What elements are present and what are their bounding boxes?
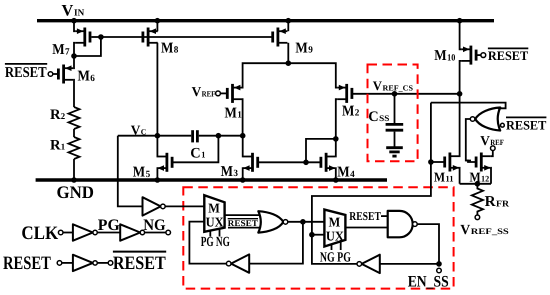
label MUX1 UX <box>206 214 224 229</box>
svg-text:FR: FR <box>496 198 510 208</box>
terminal VREF at M12 <box>491 146 496 151</box>
wire R2 to R1 <box>73 129 75 137</box>
svg-text:M: M <box>434 48 446 64</box>
ground symbol under CSS <box>386 148 403 156</box>
svg-text:6: 6 <box>90 74 95 84</box>
dashed box switching logic <box>183 187 453 288</box>
svg-text:REF_CS: REF_CS <box>383 83 414 92</box>
wire NAND out down <box>417 224 439 264</box>
wire NAND out to inverter2 <box>380 263 439 265</box>
svg-text:PG NG: PG NG <box>201 235 230 250</box>
wire M2 gate to VREF_CS <box>352 93 460 95</box>
transistor M9 <box>273 28 288 47</box>
node MUX2 select tap <box>309 232 315 238</box>
label M10 <box>434 48 455 64</box>
label MUX2 M <box>329 215 341 230</box>
wire MUX1 out to NOR1 <box>225 214 261 216</box>
terminal VREF_SS <box>475 215 480 220</box>
svg-text:M: M <box>161 41 173 57</box>
label R1 <box>50 138 65 154</box>
bubble U7 <box>226 261 231 266</box>
wire MUX2 out to NAND <box>345 227 387 229</box>
label GND <box>57 182 95 202</box>
wire NOR top input <box>431 103 506 109</box>
node M3/M4 gate <box>303 160 309 166</box>
wire VC to inverter <box>118 136 143 207</box>
junction M3 on rail <box>240 177 246 183</box>
svg-text:1: 1 <box>61 142 65 152</box>
junction M4 on rail <box>333 177 339 183</box>
wire M4 drain up <box>335 139 337 157</box>
transistor M1 <box>227 84 242 103</box>
wire M4 source to rail <box>335 168 337 180</box>
svg-text:8: 8 <box>174 46 179 56</box>
svg-text:RESET: RESET <box>506 118 547 133</box>
wire M11/M12 source join <box>460 183 491 185</box>
label VIN <box>62 3 85 20</box>
label M11 <box>434 169 454 184</box>
wire RESETbar to M6 gate bubble <box>47 73 50 75</box>
transistor M10 <box>461 46 476 65</box>
node VREF_CS at CSS <box>392 91 398 97</box>
svg-text:RESET: RESET <box>3 253 51 274</box>
inverter U12 NG <box>120 224 140 240</box>
transistor M4 <box>321 153 336 172</box>
svg-text:C: C <box>190 146 200 162</box>
wire M11 source down <box>458 168 460 184</box>
label RESETbar at M10 <box>488 48 529 63</box>
label RESETbar small at NOR1 <box>228 218 258 228</box>
resistor R2 <box>69 107 80 129</box>
bubble on M6 gate <box>48 72 53 77</box>
wire M6 source down to R2 <box>72 80 75 107</box>
svg-text:7: 7 <box>65 47 70 57</box>
label M12 <box>470 169 490 184</box>
wire M1 drain up to M9 <box>242 63 288 87</box>
terminal RESETbar <box>108 261 113 266</box>
wire VIN to M9 source <box>287 21 289 32</box>
node VIN power rail <box>37 19 494 22</box>
wire M4 diode loop <box>306 139 336 162</box>
svg-text:RESET: RESET <box>349 209 381 223</box>
bubble NOR1 output <box>283 220 288 225</box>
svg-text:IN: IN <box>74 9 84 19</box>
junction R1 on GND rail <box>71 177 77 183</box>
resistor RFR <box>472 184 483 215</box>
mux U5 MUX1 <box>204 195 224 232</box>
svg-text:M: M <box>78 69 90 85</box>
bubble NAND output <box>413 222 418 227</box>
wire M11 gate left <box>431 161 445 163</box>
svg-text:GND: GND <box>57 182 95 202</box>
capacitor CSS <box>386 94 404 147</box>
junction on VIN rail at M9 <box>286 18 292 24</box>
svg-text:C: C <box>368 109 378 125</box>
svg-text:PG: PG <box>98 217 121 234</box>
junction on VIN rail at M8 <box>155 18 161 24</box>
label VREF_SS <box>460 223 509 238</box>
svg-text:EN_SS: EN_SS <box>408 273 449 290</box>
terminal CLK <box>58 230 63 235</box>
svg-text:M: M <box>295 41 307 57</box>
svg-text:10: 10 <box>447 53 455 63</box>
svg-text:1: 1 <box>237 111 242 121</box>
svg-text:5: 5 <box>146 170 151 180</box>
wire M7 drain down <box>74 43 75 56</box>
svg-text:3: 3 <box>233 169 238 179</box>
label VREF_CS <box>373 78 413 93</box>
wire M5 gate tap down <box>174 136 219 163</box>
wire VIN to M8 source <box>156 21 158 32</box>
wire CLK to inverter <box>63 232 73 234</box>
label VREF at M12 <box>480 133 504 148</box>
wire NOR1 out down to inverter1 <box>249 222 303 264</box>
label VREF at M1 <box>192 84 216 99</box>
label M8 <box>161 41 179 57</box>
wire M1 source down <box>241 99 244 136</box>
inverter U7 feedback left box <box>231 254 249 272</box>
svg-text:M: M <box>52 42 64 58</box>
svg-text:REF: REF <box>202 89 216 98</box>
label M3 <box>221 164 239 180</box>
node M4 drain <box>333 136 339 142</box>
wire M7 gate to diode loop <box>91 36 101 38</box>
bubble U11 <box>93 230 97 234</box>
label M1 <box>225 105 243 121</box>
select stubs MUX2 <box>332 241 341 250</box>
svg-text:12: 12 <box>481 174 489 184</box>
bubble NOR reset input <box>501 123 505 127</box>
label PG <box>98 217 121 234</box>
wire RESET to inverter <box>62 262 73 264</box>
wire diode loop M7 <box>74 37 101 56</box>
inverter U4 (VC buffer) <box>143 197 161 215</box>
label RESET input <box>3 253 51 274</box>
wire M3 source to rail <box>242 168 245 180</box>
wire R1 to GND rail <box>73 159 75 180</box>
wire U4 out to MUX1 <box>165 205 204 207</box>
wire M3 gate to M4 gate <box>258 161 321 163</box>
nor gate U6 NOR1 <box>258 211 283 232</box>
svg-text:M: M <box>342 103 354 119</box>
svg-text:M: M <box>225 105 237 121</box>
label EN_SS <box>408 273 449 290</box>
svg-text:RESET: RESET <box>113 253 166 274</box>
label R2 <box>50 107 66 123</box>
label MUX1 M <box>208 200 220 215</box>
mux U8 MUX2 <box>324 210 345 247</box>
wire U7 out loop to MUX1 input <box>189 222 226 264</box>
wire U10 out up to EN bus <box>312 103 431 264</box>
svg-text:M: M <box>329 215 341 230</box>
svg-text:UX: UX <box>206 214 224 229</box>
svg-text:V: V <box>460 223 470 238</box>
terminal NG <box>166 230 171 235</box>
wire M10 gate to bubble <box>476 54 481 56</box>
label NG <box>143 217 166 234</box>
svg-text:M: M <box>133 165 145 181</box>
node RFR top <box>475 181 481 187</box>
wire M10 drain down to VREF_CS <box>460 61 462 94</box>
svg-text:RESET: RESET <box>5 65 47 81</box>
bubble U4 <box>161 204 166 209</box>
transistor M12 <box>476 153 491 172</box>
svg-text:M: M <box>221 164 233 180</box>
label RESETbar at M6 <box>5 64 47 81</box>
terminal EN_SS <box>437 268 442 273</box>
wire M5 source to GND rail <box>156 168 158 180</box>
svg-text:2: 2 <box>355 109 360 119</box>
node M7 gate junction <box>98 34 104 40</box>
transistor M6 <box>58 65 73 84</box>
label VC <box>131 122 147 137</box>
svg-text:11: 11 <box>445 174 453 184</box>
wire to RESETbar terminal <box>97 262 108 264</box>
svg-text:R: R <box>485 194 496 210</box>
wire M12 drain up to VREF terminal <box>491 151 493 157</box>
node M9 drain <box>286 60 292 66</box>
bubble on M10 gate <box>481 53 486 58</box>
node M1 source / M3 drain <box>240 133 246 139</box>
wire tap to MUX2 input <box>312 234 325 236</box>
wire M6 drain up to node <box>72 56 75 68</box>
transistor M2 <box>337 84 352 103</box>
label PG NG under MUX1 <box>201 235 230 250</box>
transistor M3 <box>243 153 258 172</box>
wire NG to terminal <box>145 232 166 234</box>
bubble NOR output <box>470 117 475 122</box>
node NOR1 out branch <box>300 219 306 225</box>
dashed box soft-start cap <box>368 65 418 162</box>
svg-text:REF_SS: REF_SS <box>471 227 509 236</box>
svg-text:R: R <box>50 107 61 123</box>
svg-text:UX: UX <box>326 229 344 244</box>
svg-text:M: M <box>208 200 220 215</box>
svg-text:9: 9 <box>308 46 313 56</box>
label M4 <box>337 165 355 181</box>
wire M11 drain up to VREF_CS <box>458 94 460 156</box>
bubble U12 <box>140 230 144 234</box>
svg-text:V: V <box>192 84 202 99</box>
inverter U10 feedback right box <box>362 255 380 273</box>
wire M9 drain down <box>287 43 289 63</box>
label MUX2 UX <box>326 229 344 244</box>
inverter U11 PG <box>73 224 93 240</box>
ground rail GND <box>36 178 387 181</box>
bubble U13 <box>93 261 97 265</box>
wire VIN to M7 source <box>74 21 75 32</box>
svg-text:M: M <box>337 165 349 181</box>
node C1 right / M5 gate tap <box>216 133 222 139</box>
svg-text:CLK: CLK <box>21 223 58 244</box>
resistor R1 <box>69 137 80 159</box>
wire M12 source down <box>490 168 492 184</box>
wire M2 drain up to M9 <box>288 63 337 87</box>
label RESETbar at NOR <box>506 117 547 132</box>
wire PG <box>97 232 120 234</box>
label RESET at NAND <box>349 209 381 223</box>
wire VC horizontal left segment <box>118 135 191 137</box>
label NG PG under MUX2 <box>320 250 351 265</box>
wire RESETbar to NOR1 input <box>228 227 260 229</box>
junction M5 on rail <box>155 177 161 183</box>
transistor M7 <box>75 28 90 47</box>
svg-text:NG: NG <box>143 217 166 234</box>
node M7 drain junction <box>71 53 77 59</box>
wire M8 drain down to VC <box>156 43 158 136</box>
label CLK <box>21 223 58 244</box>
label RESETbar output <box>113 252 166 274</box>
node M11 gate <box>428 159 434 165</box>
nor gate U3 (left facing) <box>475 108 500 131</box>
wire NOR1 out to MUX2 <box>288 221 325 223</box>
bubble U10 <box>357 262 362 267</box>
svg-text:4: 4 <box>350 170 355 180</box>
node VC at M8 drain <box>155 133 161 139</box>
wire M2 source down to M4 <box>336 99 337 139</box>
terminal RESET <box>57 261 62 266</box>
svg-text:V: V <box>480 133 490 148</box>
svg-text:R: R <box>50 138 61 154</box>
label CSS <box>368 109 389 125</box>
svg-text:RESET: RESET <box>488 48 529 63</box>
transistor M11 <box>445 153 460 172</box>
node EN_SS <box>436 261 442 267</box>
bubble on M1 gate <box>216 91 221 96</box>
wire M1 bubble to gate <box>220 92 227 94</box>
select stubs MUX1 <box>210 229 219 237</box>
node VREF_CS at M10/M11 <box>457 91 463 97</box>
junction on VIN rail at M7 <box>71 18 77 24</box>
label M5 <box>133 165 151 181</box>
svg-text:SS: SS <box>379 113 389 123</box>
capacitor C1 <box>193 130 198 142</box>
transistor M8 <box>143 28 158 47</box>
inverter U13 RESET <box>73 255 93 271</box>
svg-text:RESET: RESET <box>228 218 258 228</box>
svg-text:1: 1 <box>201 150 205 160</box>
label M9 <box>295 41 313 57</box>
svg-text:V: V <box>62 3 74 20</box>
wire M12 gate <box>466 161 476 163</box>
label M6 <box>78 69 96 85</box>
wire gate bus M7-M8-M9 <box>101 36 273 38</box>
wire M6 bubble to gate <box>53 73 59 75</box>
wire RESET to NAND input <box>381 215 388 217</box>
junction on VIN rail at M10 <box>457 18 463 24</box>
svg-text:M: M <box>434 169 445 184</box>
nand gate U9 <box>388 211 413 237</box>
label M2 <box>342 103 360 119</box>
svg-text:2: 2 <box>61 111 66 121</box>
transistor M5 <box>157 153 172 172</box>
wire M3 drain up <box>242 136 245 157</box>
svg-text:V: V <box>373 78 383 93</box>
wire VC horizontal right segment <box>199 135 243 137</box>
label RFR <box>485 194 510 210</box>
wire VIN to M10 source <box>460 21 462 50</box>
wire NOR output to M12 gate <box>466 119 471 161</box>
wire M5 drain up to VC <box>156 136 158 157</box>
label C1 <box>190 146 205 162</box>
label M7 <box>52 42 70 58</box>
